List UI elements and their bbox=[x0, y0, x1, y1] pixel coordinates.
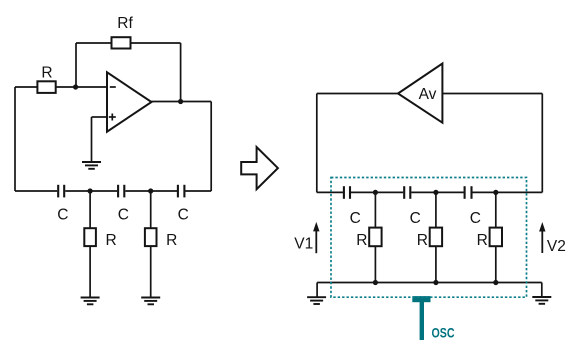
svg-text:C: C bbox=[350, 210, 361, 227]
svg-text:V1: V1 bbox=[294, 235, 313, 252]
svg-text:C: C bbox=[178, 207, 189, 224]
svg-text:C: C bbox=[118, 207, 129, 224]
svg-text:C: C bbox=[410, 210, 421, 227]
svg-text:OSC: OSC bbox=[432, 325, 455, 341]
svg-text:R: R bbox=[41, 64, 52, 81]
svg-text:R: R bbox=[417, 232, 428, 249]
svg-text:R: R bbox=[166, 232, 177, 249]
svg-text:Rf: Rf bbox=[117, 15, 133, 32]
svg-text:V2: V2 bbox=[547, 238, 566, 255]
svg-text:C: C bbox=[57, 207, 68, 224]
svg-text:C: C bbox=[470, 210, 481, 227]
svg-text:Av: Av bbox=[419, 86, 437, 103]
svg-text:R: R bbox=[105, 232, 116, 249]
svg-text:R: R bbox=[356, 232, 367, 249]
svg-text:R: R bbox=[477, 232, 488, 249]
